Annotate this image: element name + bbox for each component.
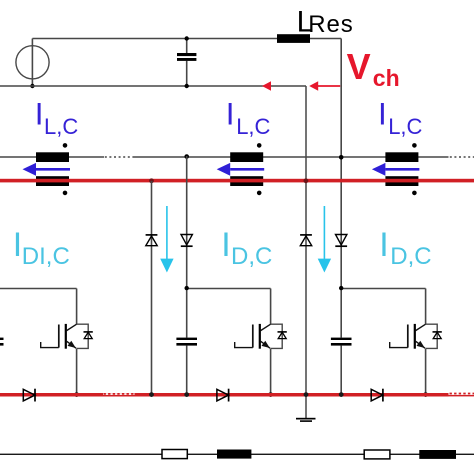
inductor L_out2 (black box) [419, 450, 456, 459]
diode D2b (pointing down) [335, 235, 347, 247]
junction: leg x=306 on red charging bus [304, 178, 309, 183]
junction: Q1 emitter on return bus [74, 392, 79, 397]
diode DS1 (series, on return bus) [23, 389, 35, 402]
transistor Q1 (IGBT) [41, 324, 77, 349]
svg-text:ch: ch [373, 65, 400, 91]
wire: leg x=151.5 (red bus to return bus) [151, 181, 153, 395]
capacitor C1 (storage) [0, 338, 4, 346]
wire: top bus from source to L_Res corner [32, 38, 341, 40]
wire: cell top wire to Q3 collector [341, 289, 425, 325]
label I_L,C cell 1 [35, 95, 79, 139]
wire: leg x=186.7 (AC bus through C2 to return bus) [186, 156, 188, 395]
wire: AC bus dotted continuation (right edge) [450, 156, 474, 158]
junction: C_in top [185, 36, 189, 40]
label I_D,C cell 2 [221, 226, 272, 270]
junction: ground leg on return bus [304, 392, 309, 397]
svg-text:Res: Res [308, 11, 353, 38]
net: return bus (red, y=394.8) [0, 393, 449, 397]
label I_L,C cell 3 [378, 95, 423, 139]
arrow: cyan diode current I_D,C (2) [318, 206, 331, 273]
junction: Q3 emitter on return bus [423, 392, 428, 397]
label I_L,C cell 2 [226, 95, 271, 139]
wire: Q1 emitter to return bus [76, 348, 78, 394]
svg-text:I: I [379, 226, 388, 264]
junction: leg x=151.5 on red charging bus [149, 178, 154, 183]
transformer T1 (pulse transformer bars) [36, 143, 69, 195]
ground [296, 418, 316, 422]
diode DQ3 (anti-parallel freewheel) [426, 324, 442, 348]
junction: leg x=341.2 on return bus [339, 392, 344, 397]
inductor L_out1 (black box) [217, 450, 251, 459]
diode DQ1 (anti-parallel freewheel) [77, 324, 93, 348]
arrow: cyan diode current I_D,C (1) [160, 206, 173, 273]
transformer T3 (pulse transformer bars) [385, 143, 418, 195]
svg-text:D,C: D,C [390, 243, 431, 270]
wire: vertical from L_Res down (cell 3 leg) [340, 39, 342, 395]
arrow: blue I_L,C direction at T3 [372, 163, 420, 176]
wire: lower return bus of source loop [0, 85, 306, 87]
svg-text:V: V [347, 46, 371, 87]
resistor R_load1 (white box) [162, 450, 187, 459]
arrow: blue I_L,C direction at T1 [23, 163, 71, 176]
diode D1b (pointing down) [181, 235, 193, 247]
svg-text:I: I [378, 95, 387, 131]
svg-text:DI,C: DI,C [22, 243, 70, 270]
junction: Q2 emitter on return bus [268, 392, 273, 397]
label V_ch [347, 46, 400, 91]
arrow: blue I_L,C direction at T2 [217, 163, 265, 176]
capacitor C2 (storage) [176, 338, 197, 346]
svg-text:D,C: D,C [231, 243, 272, 270]
junction: source / lower bus [30, 84, 34, 88]
inductor L_Res (charging inductor) [277, 34, 310, 43]
svg-text:L,C: L,C [44, 114, 78, 139]
junction: cell 2 top wire on leg [185, 286, 189, 290]
arrow: red V_ch arrow [309, 81, 340, 91]
wire: return bus dashed continuation (right edge) [449, 394, 474, 397]
svg-text:I: I [221, 226, 230, 264]
svg-text:I: I [226, 95, 235, 131]
resistor R_load2 (white box) [364, 450, 390, 459]
wire: output network line [0, 454, 474, 455]
label I_D,C cell 3 [379, 226, 431, 270]
junction: cell 3 top wire on leg [339, 286, 343, 290]
wire: cell top wire to Q2 collector [187, 289, 271, 325]
transformer T2 (pulse transformer bars) [230, 143, 263, 195]
label I_DI,C cell 1 [13, 226, 70, 270]
diode DS2 (series, on return bus) [217, 389, 229, 402]
net: primary AC bus (grey, y=157) [0, 156, 449, 158]
transistor Q2 (IGBT) [235, 324, 271, 349]
label L_Res [297, 5, 354, 38]
wire: vertical charging leg x=306 down to ground [305, 86, 307, 418]
arrow: red charge-current arrowhead on lower bus [262, 81, 271, 91]
current source I_ch [16, 39, 49, 87]
wire: cell top wire to Q1 collector [0, 289, 77, 325]
wire: Q3 emitter to return bus [425, 348, 427, 394]
junction: C_in bottom [185, 84, 189, 88]
junction: leg x=186.7 on grey AC bus [184, 154, 189, 159]
junction: leg x=341 on grey AC bus [339, 155, 344, 160]
diode DS3 (series, on return bus) [371, 389, 383, 402]
junction: leg x=151.5 on return bus [149, 392, 154, 397]
wire: AC bus dotted continuation (left) [105, 156, 133, 158]
wire: Q2 emitter to return bus [270, 348, 272, 394]
net: charging bus (red, y=180.6) [0, 179, 474, 183]
transistor Q3 (IGBT) [390, 324, 426, 349]
diode D1a (pointing up) [146, 235, 158, 246]
svg-text:L,C: L,C [388, 114, 422, 139]
capacitor C_in (top filter cap) [177, 39, 196, 87]
diode D2a (pointing up) [300, 235, 312, 246]
capacitor C3 (storage) [331, 338, 352, 346]
svg-text:I: I [35, 95, 44, 131]
junction: leg x=186.7 on return bus [184, 392, 189, 397]
wire: return bus dashed continuation (mid) [103, 393, 135, 395]
svg-text:L,C: L,C [236, 114, 270, 139]
diode DQ2 (anti-parallel freewheel) [271, 324, 287, 348]
